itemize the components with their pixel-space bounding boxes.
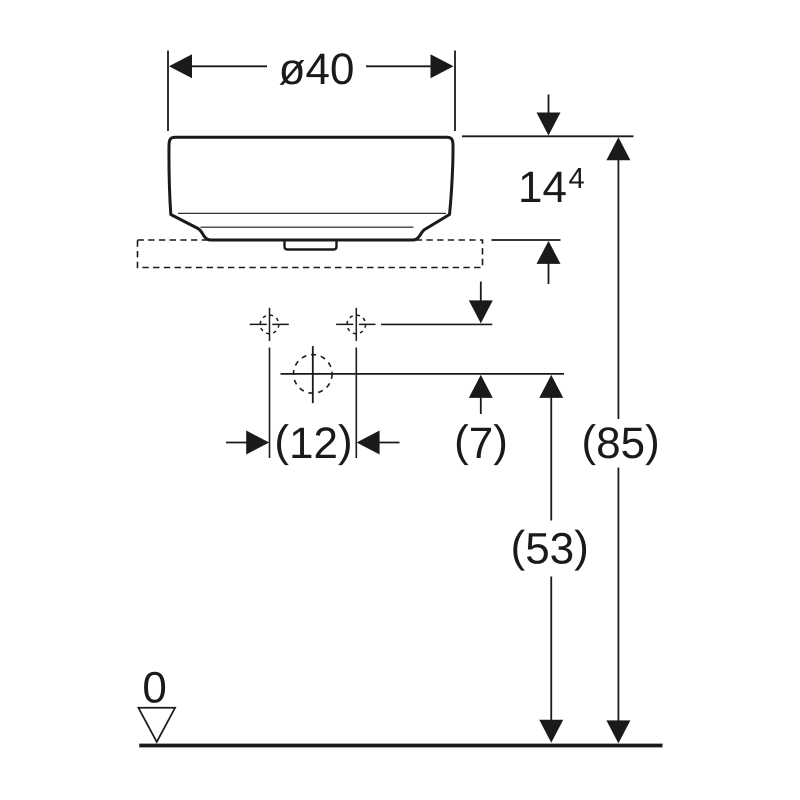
dimension 14-4 upper shaft	[548, 95, 550, 115]
dimension (12) left arrowhead	[246, 431, 269, 455]
dimension (12) right shaft	[378, 442, 400, 444]
dimension (12) right arrowhead	[357, 431, 380, 455]
dimension (53) lower line	[550, 577, 552, 723]
countertop dashed rectangle	[138, 240, 483, 268]
dimension ø40 line right segment	[366, 65, 432, 67]
dimension (7) upper shaft	[480, 282, 482, 303]
dimension (85) upper line	[617, 159, 619, 419]
drain axis reference line	[281, 373, 565, 375]
dimension 14-4 upper arrowhead	[537, 113, 561, 136]
dimension (7) lower shaft	[480, 396, 482, 414]
dimension (85) label	[584, 424, 596, 465]
dimension ø40 extension line left	[167, 51, 169, 132]
washbasin inner rim line upper	[178, 212, 446, 214]
datum triangle symbol	[138, 708, 175, 742]
tap hole right crosshair vertical	[355, 308, 357, 341]
dimension (53) lower arrowhead	[539, 720, 563, 743]
dimension ø40 extension line right	[454, 51, 456, 132]
dimension ø40 arrowhead right	[431, 54, 454, 78]
datum zero label	[144, 672, 165, 703]
washbasin inner rim line lower	[201, 226, 414, 228]
dimension (12) label	[277, 424, 289, 465]
dimension 14-4 top reference line	[462, 135, 634, 137]
dimension (85) lower arrowhead	[606, 720, 630, 743]
tap hole right crosshair horizontal left segment	[336, 323, 353, 325]
dimension 14-4 lower shaft	[548, 263, 550, 284]
washbasin drain tab	[285, 240, 337, 250]
dimension 14-4 lower arrowhead	[537, 241, 561, 264]
tap hole left crosshair vertical	[269, 308, 271, 341]
tap hole left crosshair horizontal left segment	[250, 323, 267, 325]
drain crosshair vertical	[312, 346, 314, 403]
tap hole right dashed circle	[347, 315, 366, 334]
dimension (7) lower arrowhead	[469, 375, 493, 398]
dimension (53) upper arrowhead	[539, 375, 563, 398]
drain dashed circle	[294, 355, 333, 394]
dimension (85) lower line	[617, 468, 619, 723]
dimension 14-4 superscript	[569, 168, 584, 188]
tap hole left crosshair horizontal right segment	[272, 323, 289, 325]
tap hole right crosshair horizontal right segment	[359, 323, 376, 325]
dimension 14-4 bottom reference line	[492, 239, 561, 241]
dimension 14-4 label	[521, 172, 540, 202]
dimension (12) extension line left	[269, 348, 271, 459]
dimension (53) label	[513, 530, 525, 571]
dimension ø40 line left segment	[191, 65, 267, 67]
tap hole axis reference line	[381, 323, 492, 325]
floor reference line	[139, 744, 662, 748]
dimension (7) upper arrowhead	[469, 300, 493, 323]
dimension (7) label	[457, 424, 469, 465]
tap hole left dashed circle	[260, 315, 279, 334]
dimension (12) left shaft	[226, 442, 248, 444]
washbasin outline	[169, 137, 453, 240]
dimension (53) upper line	[550, 396, 552, 521]
dimension ø40 arrowhead left	[169, 54, 192, 78]
dimension ø40 label	[280, 60, 305, 85]
dimension (85) upper arrowhead	[606, 137, 630, 160]
dimension (12) extension line right	[355, 348, 357, 459]
